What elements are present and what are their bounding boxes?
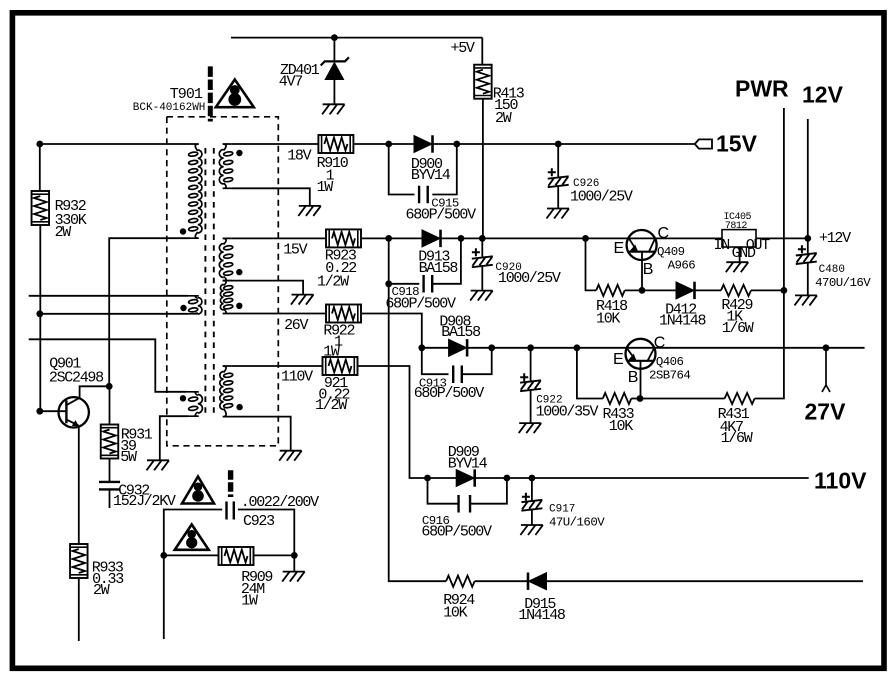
transistor Q409 base bar (629, 251, 655, 253)
wire Q901 emitter down to R933 (78, 426, 80, 544)
wire Q406 base lead down (640, 361, 642, 399)
resistor R921 (323, 357, 358, 375)
svg-text:BA158: BA158 (441, 324, 481, 341)
wire feedback line D913 node down to bottom rail (389, 284, 446, 581)
wire S3 return to ground (232, 417, 291, 451)
capacitor C913 (453, 365, 462, 383)
svg-text:1/2W: 1/2W (315, 397, 347, 414)
transistor Q406 base bar (627, 360, 653, 362)
svg-text:B: B (628, 369, 639, 386)
wire D412 to R429 (695, 289, 722, 291)
wire R433 branch down (577, 348, 603, 399)
wire C926 to ground (557, 187, 559, 209)
secondary winding S2 lower half (220, 285, 223, 311)
wire C915 right leg (432, 144, 457, 195)
resistor R924 (446, 576, 475, 587)
transistor Q901 emitter with arrow (67, 420, 79, 426)
wire W3 bottom to primary ground (160, 416, 188, 460)
wire D908 to Q406 emitter (467, 347, 626, 349)
svg-text:10K: 10K (609, 418, 633, 435)
ground C922 (519, 423, 542, 433)
junction R909 right / C923 / ground (291, 552, 298, 559)
wire ZD401 cathode to ground (333, 80, 335, 105)
svg-text:GND: GND (732, 245, 756, 262)
wire C913 left leg (422, 348, 449, 374)
capacitor C917 (521, 500, 542, 511)
junction D913 cathode / C918 (458, 235, 465, 242)
junction Q406 base / R433 / R431 (637, 395, 644, 402)
svg-text:B: B (643, 261, 654, 278)
transistor Q406 chord wire (627, 347, 655, 349)
svg-text:10K: 10K (596, 311, 620, 328)
capacitor C926 (548, 176, 569, 187)
wire right node to ground (293, 555, 295, 571)
svg-text:10K: 10K (443, 605, 467, 622)
resistor R431 (725, 393, 755, 404)
svg-text:.0022/200V: .0022/200V (241, 494, 319, 511)
wire PWR vertical rail (755, 108, 784, 399)
warning triangle lower near R909 (175, 525, 209, 550)
svg-text:2SB764: 2SB764 (649, 369, 690, 383)
svg-text:5W: 5W (120, 449, 137, 466)
wire C916 right leg (470, 478, 507, 504)
svg-text:1000/35V: 1000/35V (536, 404, 599, 421)
svg-text:110V: 110V (814, 468, 867, 494)
svg-text:4V7: 4V7 (279, 73, 302, 90)
junction C913 right (488, 344, 495, 351)
diode D412 (676, 282, 694, 299)
ground C923/R909 (282, 572, 305, 582)
transistor Q409 circle (627, 230, 657, 260)
diode D915 (529, 573, 547, 590)
warning triangle near T901 (216, 80, 254, 108)
wire C915 left leg (389, 144, 415, 195)
transistor Q406 collector stroke (648, 348, 655, 361)
svg-text:2W: 2W (55, 224, 72, 241)
wire R933 bottom stub (78, 578, 80, 641)
wire S1 to R910 (232, 143, 319, 145)
svg-text:1W: 1W (317, 179, 334, 196)
junction C916 right (504, 475, 511, 482)
ground primary W3 (147, 460, 170, 470)
junction C918 left (385, 280, 392, 287)
junction R418 branch (582, 235, 589, 242)
capacitor C922 (520, 380, 541, 391)
wire Q901 collector diagonal (67, 398, 80, 405)
resistor R910 (318, 135, 353, 153)
plus C926 (548, 168, 556, 176)
junction +12V output node (804, 235, 811, 242)
capacitor C915 (419, 186, 428, 204)
phasing dot S2 upper (236, 269, 242, 275)
wire 18V rail left from node A to primary W1 top (40, 143, 186, 145)
svg-text:680P/500V: 680P/500V (414, 385, 485, 402)
svg-text:+12V: +12V (819, 230, 851, 247)
svg-text:680P/500V: 680P/500V (406, 206, 477, 223)
capacitor C932 (99, 482, 120, 490)
phasing dot W1 (180, 228, 186, 234)
svg-text:1/6W: 1/6W (722, 320, 754, 337)
wire S2 center tap to ground (232, 281, 303, 295)
ground C917 (520, 525, 543, 535)
svg-text:7812: 7812 (725, 221, 748, 232)
wire D915 to right edge (547, 580, 864, 582)
wire C932 stub (109, 490, 111, 509)
phasing dot W3 (180, 395, 186, 401)
plus C920 (472, 248, 480, 256)
open terminal 27V (822, 348, 830, 392)
wire feedback stub lower to W3 (29, 339, 186, 392)
wire R418 branch down (586, 238, 597, 290)
wire C913 right leg (462, 348, 492, 374)
wire R909 to right node (254, 554, 295, 556)
capacitor C916 (459, 495, 471, 513)
svg-text:IN: IN (714, 237, 730, 254)
junction node A rail/R932 (36, 141, 43, 148)
junction D913 anode node (385, 235, 392, 242)
svg-text:15V: 15V (283, 242, 307, 259)
wire C920 to ground (481, 267, 483, 291)
plus C917 (522, 493, 530, 501)
transistor Q406 circle (626, 339, 656, 369)
svg-text:BYV14: BYV14 (411, 167, 451, 184)
wire ZD401 anode lead (333, 38, 335, 62)
capacitor C923 (227, 502, 234, 520)
svg-text:Q406: Q406 (656, 355, 684, 369)
phasing dot S1 (236, 150, 242, 156)
wire D909 anode lead (428, 477, 457, 479)
primary winding W3 (198, 395, 203, 414)
junction ZD401 top (331, 34, 338, 41)
svg-text:T901: T901 (170, 86, 203, 103)
wire node B down to Q901 base (39, 314, 41, 411)
wire IC405 OUT to +12V node (756, 237, 808, 239)
isolation barrier bar at T901 (208, 66, 213, 121)
transformer T901 core line left (204, 148, 206, 416)
wire C920 branch (481, 238, 483, 256)
warning triangle upper near C923 (182, 477, 214, 504)
wire top +5V rail (231, 37, 482, 39)
phasing dot S2 lower (236, 303, 242, 309)
svg-text:BA158: BA158 (419, 260, 459, 277)
svg-text:47U/160V: 47U/160V (549, 515, 605, 529)
ground S1 return (298, 206, 321, 216)
junction Q901 base node (36, 408, 43, 415)
junction C915 left (385, 141, 392, 148)
wire C926 branch (557, 144, 559, 177)
transistor Q409 emitter with arrow (629, 238, 637, 251)
svg-text:1/6W: 1/6W (721, 430, 753, 447)
primary winding W1 (198, 150, 202, 233)
wire C917 branch (531, 478, 533, 500)
wire C923 left leg (164, 510, 222, 556)
wire C922 branch (530, 348, 532, 381)
wire R910 to D900 (353, 143, 414, 145)
junction C922 branch (527, 344, 534, 351)
resistor R418 (596, 285, 625, 296)
resistor R909 (219, 547, 254, 565)
junction R433 branch (574, 344, 581, 351)
diode D913 (422, 230, 440, 247)
resistor R933 (70, 544, 88, 578)
transformer T901 core line right (213, 148, 215, 416)
svg-text:C923: C923 (243, 513, 275, 530)
wire Q409 collector to IC405 IN (655, 237, 722, 239)
diode D909 (456, 470, 474, 487)
resistor R433 (603, 393, 632, 404)
svg-text:470U/16V: 470U/16V (815, 276, 871, 290)
zener diode ZD401 (325, 63, 343, 80)
wire R418 to D412 (625, 289, 676, 291)
wire S3 to R921 (232, 365, 323, 367)
svg-text:BCK-40162WH: BCK-40162WH (133, 102, 206, 114)
transistor Q406 emitter with arrow (627, 348, 636, 360)
wire C918 right leg (432, 238, 461, 283)
wire C923 right leg (238, 510, 294, 556)
wire D913 to Q409 emitter (441, 237, 629, 239)
svg-text:C917: C917 (549, 504, 575, 516)
junction R429 / PWR rail (781, 287, 788, 294)
wire C917 to ground (531, 510, 533, 525)
plus C480 (798, 245, 806, 253)
wire Q901 collector up to node (80, 386, 110, 398)
wire C480 branch (807, 238, 809, 253)
svg-text:1000/25V: 1000/25V (498, 270, 561, 287)
wire S1 return to ground (232, 188, 310, 206)
ground IC405 (726, 262, 749, 272)
wire D900 to 15V plug rail (433, 143, 695, 145)
wire W1 bottom to collector node (109, 238, 190, 386)
svg-text:Q409: Q409 (657, 245, 685, 259)
svg-text:E: E (613, 351, 624, 368)
ground C926 (547, 209, 570, 219)
wire R433 to Q406 base node (631, 398, 640, 400)
output plug 15V (695, 139, 712, 148)
wire base node to R431 (640, 398, 725, 400)
transistor Q409 collector stroke (649, 238, 655, 251)
resistor R923 (326, 229, 361, 247)
svg-text:+5V: +5V (451, 40, 475, 57)
wire R413 down crossing 18V rail to 15V rail (482, 99, 484, 239)
svg-text:PWR: PWR (735, 76, 789, 102)
transistor Q901 circle (58, 397, 88, 427)
wire Q409 base lead down (641, 252, 643, 291)
ground C480 (795, 295, 818, 305)
junction R909 left node (160, 552, 167, 559)
wire left node down stub (163, 555, 165, 639)
svg-text:1N4148: 1N4148 (659, 313, 707, 330)
transformer T901 dashed box (167, 117, 278, 446)
svg-text:26V: 26V (284, 317, 308, 334)
wire W2 bottom to node B (40, 313, 188, 315)
resistor R413 (474, 65, 492, 99)
svg-text:C: C (658, 225, 670, 242)
plus C922 (520, 373, 528, 381)
junction 27V drop (823, 344, 830, 351)
svg-text:2SC2498: 2SC2498 (49, 370, 104, 387)
phasing dot W2 (180, 305, 186, 311)
junction Q901 collector / R931 (106, 383, 113, 390)
wire C916 left leg (428, 478, 459, 504)
phasing dot S3 (236, 404, 242, 410)
wire R931 to C932 (109, 459, 111, 482)
svg-text:1W: 1W (241, 593, 258, 610)
resistor R922 (326, 305, 361, 323)
resistor R932 (32, 191, 50, 225)
svg-text:1/2W: 1/2W (317, 273, 349, 290)
svg-text:2W: 2W (93, 582, 110, 599)
svg-text:12V: 12V (802, 82, 844, 108)
wire C922 to ground (530, 391, 532, 423)
wire left node to R909 (164, 554, 219, 556)
svg-text:2W: 2W (495, 110, 512, 127)
diode D900 (414, 136, 432, 153)
svg-text:15V: 15V (716, 131, 758, 157)
wire R923 to D913 (361, 237, 422, 239)
wire R921 to D909 corner (358, 366, 428, 478)
svg-text:110V: 110V (281, 369, 313, 386)
svg-text:E: E (614, 240, 625, 257)
ground ZD401 (322, 104, 345, 114)
regulator IC405 body (722, 230, 756, 247)
svg-text:BYV14: BYV14 (448, 456, 488, 473)
junction D908 anode / C913 (418, 344, 425, 351)
junction Q409 base / R418 / D412 (639, 287, 646, 294)
junction C926 branch (555, 141, 562, 148)
transistor Q901 base bar (65, 400, 67, 423)
wire 12V vertical rail (807, 119, 809, 238)
wire Q901 base lead (40, 410, 67, 412)
junction R413 / C920 (479, 235, 486, 242)
resistor R931 (101, 425, 119, 459)
svg-text:27V: 27V (805, 399, 847, 425)
capacitor C920 (472, 256, 493, 267)
junction node B W2 return (36, 310, 43, 317)
wire S2 bottom to R922 (232, 313, 326, 315)
junction C917 branch (529, 475, 536, 482)
wire R429 to PWR rail (751, 289, 784, 291)
junction C915 right (453, 141, 460, 148)
wire R924 to D915 (475, 580, 528, 582)
diode D908 (449, 339, 467, 356)
wire feedback stub upper (29, 295, 188, 297)
primary winding W2 (198, 298, 202, 315)
ground S3 return (279, 451, 302, 461)
wire collector node to R931 (109, 386, 111, 424)
svg-text:A966: A966 (668, 259, 696, 273)
svg-text:680P/500V: 680P/500V (421, 524, 492, 541)
svg-text:1N4148: 1N4148 (518, 607, 566, 624)
wire D909 to 110V label (475, 477, 809, 479)
svg-text:152J/2KV: 152J/2KV (113, 493, 176, 510)
wire Q406 collector to 27V (654, 347, 864, 349)
wire S2 to R923 (232, 237, 326, 239)
wire R932 bottom to node B (39, 225, 41, 314)
ground S2 tap (291, 295, 314, 305)
wire R922 to D908 corner (361, 314, 422, 348)
wire C480 to ground (807, 264, 809, 296)
capacitor C480 (796, 253, 817, 264)
wire IC405 GND lead (739, 247, 741, 262)
svg-text:C: C (654, 335, 666, 352)
svg-text:1000/25V: 1000/25V (570, 188, 633, 205)
capacitor C918 (424, 275, 433, 293)
transistor Q409 chord wire (629, 237, 655, 239)
svg-text:18V: 18V (287, 148, 311, 165)
secondary winding S2 upper half (219, 244, 223, 278)
wire C918 left leg (389, 238, 420, 283)
ground C920 (470, 291, 493, 301)
junction D909 anode / C916 (424, 475, 431, 482)
wire D908 anode lead (422, 347, 449, 349)
resistor R429 (721, 285, 751, 296)
wire left rail vertical (39, 144, 41, 191)
secondary winding S1 18V (219, 150, 223, 185)
svg-text:C480: C480 (819, 264, 845, 276)
secondary winding S3 110V (220, 372, 224, 410)
wire +5V to R413 (481, 38, 483, 65)
svg-text:680P/500V: 680P/500V (385, 296, 456, 313)
isolation barrier bar at C923 (228, 470, 233, 497)
